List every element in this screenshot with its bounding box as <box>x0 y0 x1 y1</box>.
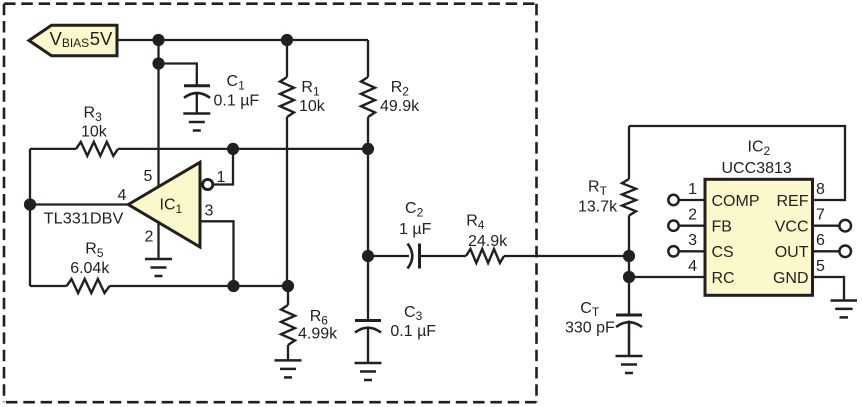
svg-text:VCC: VCC <box>775 219 809 236</box>
capacitor CT plates <box>616 315 642 356</box>
pin 1 COMP open terminal <box>668 195 678 205</box>
wire: pin 5 GND lead <box>812 277 844 301</box>
wire: RT vertical net <box>628 126 630 315</box>
wire: C2 branch <box>368 255 409 257</box>
IC2 UCC3813 body <box>705 179 813 295</box>
wire: CT ground lead <box>628 321 630 357</box>
svg-text:6: 6 <box>816 232 825 249</box>
svg-text:FB: FB <box>712 219 732 236</box>
wire: R5 net horizontal <box>30 285 288 287</box>
wire: pin 3 CS stub <box>680 250 706 252</box>
wire: C2 to R4 to node <box>420 255 630 257</box>
svg-text:4: 4 <box>118 187 127 204</box>
resistor R2 zigzag <box>361 77 375 117</box>
VBIAS supply tag <box>29 25 117 55</box>
junction node: pin 4 input <box>24 198 36 210</box>
svg-text:2: 2 <box>145 228 154 245</box>
svg-text:R2: R2 <box>391 79 410 99</box>
wire: pin 4 input <box>30 203 129 205</box>
junction node: C2/C3 tap <box>362 250 374 262</box>
svg-text:UCC3813: UCC3813 <box>722 160 792 177</box>
junction node: C1 tap <box>152 57 164 69</box>
junction node: pin1/R3 net <box>227 143 239 155</box>
junction node: pin3/R5 net <box>227 280 239 292</box>
svg-text:7: 7 <box>816 207 825 224</box>
wire: R6 leads <box>287 286 289 360</box>
resistor R3 zigzag <box>76 142 118 156</box>
wire: pin 2 ground lead <box>157 222 159 259</box>
wire: R1 bottom lead (crossover) <box>286 117 288 286</box>
pin 2 FB open terminal <box>668 221 678 231</box>
svg-text:IC2: IC2 <box>748 139 771 159</box>
svg-text:49.9k: 49.9k <box>380 98 420 115</box>
wire: pin 6 OUT stub <box>812 250 839 252</box>
wire: R3 net horizontal <box>30 148 368 150</box>
wire: VBIAS top bus <box>117 39 368 41</box>
op-amp IC1 triangle <box>128 162 200 247</box>
svg-text:C3: C3 <box>404 304 423 323</box>
junction node: R6/R5 net <box>282 280 294 292</box>
wire: pin 2 FB stub <box>680 225 706 227</box>
svg-text:RT: RT <box>588 179 608 199</box>
wire: pin 3 to R5 net <box>200 221 234 286</box>
svg-text:R1: R1 <box>301 79 320 99</box>
svg-text:0.1 µF: 0.1 µF <box>390 323 436 340</box>
resistor R1 zigzag <box>280 77 294 117</box>
ground (pin 2 of IC1) <box>145 259 172 276</box>
dashed module boundary <box>4 4 537 403</box>
resistor RT zigzag <box>622 179 636 215</box>
svg-text:4: 4 <box>688 258 697 275</box>
svg-text:OUT: OUT <box>775 244 809 261</box>
wire: pin 1 to R3 net <box>213 149 233 185</box>
resistor R5 zigzag <box>67 279 110 293</box>
wire: pin 1 COMP stub <box>680 199 706 201</box>
svg-text:TL331DBV: TL331DBV <box>44 210 124 227</box>
capacitor C3 plates <box>355 321 381 364</box>
ground (R6) <box>275 360 302 377</box>
svg-text:4.99k: 4.99k <box>298 326 338 343</box>
wire: RT top to pin 8 REF <box>629 126 845 200</box>
ground (C3) <box>355 363 382 380</box>
svg-text:3: 3 <box>205 202 214 219</box>
svg-text:330 pF: 330 pF <box>565 320 615 337</box>
svg-text:5: 5 <box>144 168 153 185</box>
ground (CT) <box>616 356 643 373</box>
svg-text:8: 8 <box>816 181 825 198</box>
svg-text:R4: R4 <box>466 213 485 233</box>
svg-text:CS: CS <box>712 244 734 261</box>
wire: R2 top lead <box>367 40 369 77</box>
svg-text:GND: GND <box>773 270 809 287</box>
wire: RC pin 4 input <box>629 276 705 278</box>
svg-text:R3: R3 <box>84 105 103 125</box>
pin 1 bubble of IC1 <box>203 179 213 189</box>
svg-text:5: 5 <box>816 258 825 275</box>
junction node: RC/CT <box>623 271 635 283</box>
svg-text:C2: C2 <box>405 200 424 220</box>
wire: pin 5 supply drop <box>157 40 159 189</box>
pin 3 CS open terminal <box>668 246 678 256</box>
svg-text:C1: C1 <box>227 73 246 93</box>
svg-text:REF: REF <box>777 193 809 210</box>
svg-text:3: 3 <box>688 232 697 249</box>
svg-text:R5: R5 <box>85 241 104 261</box>
capacitor C1 plates <box>184 86 210 114</box>
svg-text:R6: R6 <box>310 308 329 328</box>
svg-text:10k: 10k <box>299 98 326 115</box>
svg-text:6.04k: 6.04k <box>70 260 110 277</box>
capacitor C2 plates <box>408 244 420 269</box>
svg-text:RC: RC <box>712 270 735 287</box>
svg-text:0.1 µF: 0.1 µF <box>214 93 260 110</box>
svg-text:24.9k: 24.9k <box>468 233 508 250</box>
ground (C1) <box>183 114 210 131</box>
wire: C1 branch <box>159 64 197 86</box>
resistor R6 zigzag <box>281 305 295 345</box>
svg-text:1 µF: 1 µF <box>399 221 432 238</box>
junction node: R4/RT <box>623 250 635 262</box>
svg-text:2: 2 <box>688 207 697 224</box>
svg-text:CT: CT <box>580 300 600 319</box>
ground (IC2 GND pin 5) <box>831 301 858 318</box>
svg-text:COMP: COMP <box>712 193 760 210</box>
svg-text:1: 1 <box>688 181 697 198</box>
pin 7 VCC open terminal <box>839 220 851 232</box>
junction node: VBIAS/R1 <box>281 34 293 46</box>
resistor R4 zigzag <box>466 249 504 263</box>
svg-text:10k: 10k <box>81 124 108 141</box>
wire: R2 bottom lead to C3 <box>367 117 369 321</box>
junction node: R2/R3 net <box>362 143 374 155</box>
wire: left vertical R3-R5 <box>29 149 31 286</box>
pin 6 OUT open terminal <box>839 246 851 258</box>
svg-text:13.7k: 13.7k <box>578 198 618 215</box>
wire: R1 top lead <box>286 40 288 77</box>
svg-text:1: 1 <box>217 169 226 186</box>
wire: pin 7 VCC stub <box>812 225 839 227</box>
junction node: VBIAS/pin5 <box>152 34 164 46</box>
